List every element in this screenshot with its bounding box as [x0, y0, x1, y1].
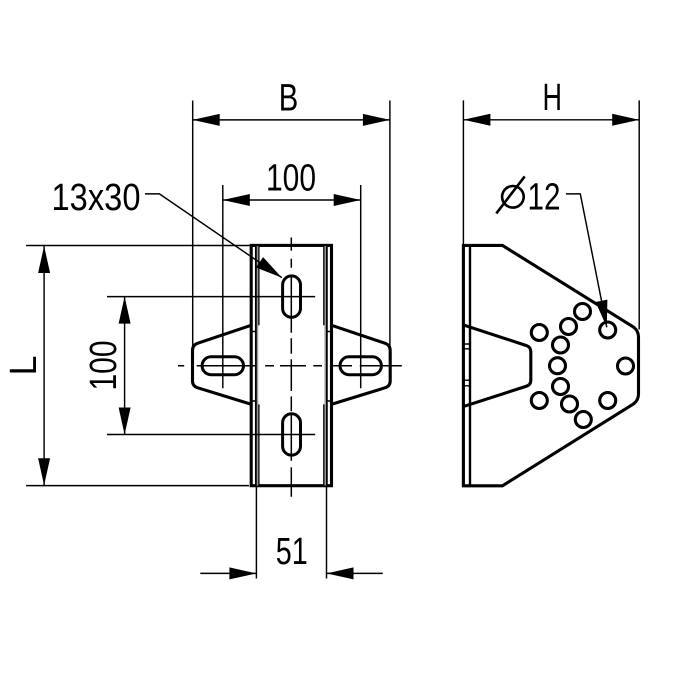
dimension H	[463, 77, 639, 330]
dimension 51	[200, 487, 382, 579]
side view: hole arc 3	[553, 337, 569, 353]
dimension 100 horizontal	[223, 157, 361, 388]
front view: right wing	[331, 325, 390, 404]
svg-text:100: 100	[266, 157, 316, 199]
side view: hole arc 1	[575, 304, 591, 320]
side view: hole arc 5	[553, 379, 569, 395]
side view: hole arc 4	[550, 358, 566, 374]
front view: vertical centerline	[290, 238, 292, 497]
front view: inner edge gray blur bands	[258, 246, 326, 486]
front view: top slot 13x30	[283, 276, 301, 317]
side view: hole left bottom	[531, 393, 547, 409]
side view: wing edge-on trapezoid	[465, 325, 531, 406]
dimension 100 vertical	[83, 297, 315, 435]
front view: edge tick marks	[251, 332, 331, 402]
side view: plate tick marks	[463, 344, 470, 386]
side view: hole left top	[531, 325, 547, 341]
front view: left wing	[193, 325, 252, 404]
svg-text:H: H	[543, 77, 563, 119]
side view: outline	[463, 245, 638, 485]
front view: horizontal centerline	[178, 365, 402, 367]
front view: right wing slot 30x13	[340, 357, 381, 375]
side view: hole right top (Ø12)	[600, 322, 616, 338]
side view: hole right middle	[618, 358, 634, 374]
front view: channel outline	[251, 245, 331, 485]
svg-text:51: 51	[276, 531, 308, 573]
svg-text:B: B	[279, 78, 299, 120]
svg-text:L: L	[3, 356, 45, 376]
side view: inner plate line	[469, 245, 471, 485]
dimension L	[3, 246, 250, 486]
front view: left wing slot 30x13	[202, 357, 243, 375]
side view: hole arc 6	[562, 396, 578, 412]
label 13x30 with leader	[52, 177, 282, 278]
side view: hole right bottom	[600, 393, 616, 409]
svg-text:13x30: 13x30	[52, 177, 141, 219]
svg-text:100: 100	[83, 341, 125, 391]
dimension B	[193, 78, 390, 350]
svg-text:12: 12	[528, 176, 561, 218]
side view: hole arc 2	[561, 319, 577, 335]
front view: bottom slot 13x30	[283, 414, 301, 455]
side view: hole arc 7	[575, 412, 591, 428]
label Ø12 with leader	[496, 176, 607, 327]
